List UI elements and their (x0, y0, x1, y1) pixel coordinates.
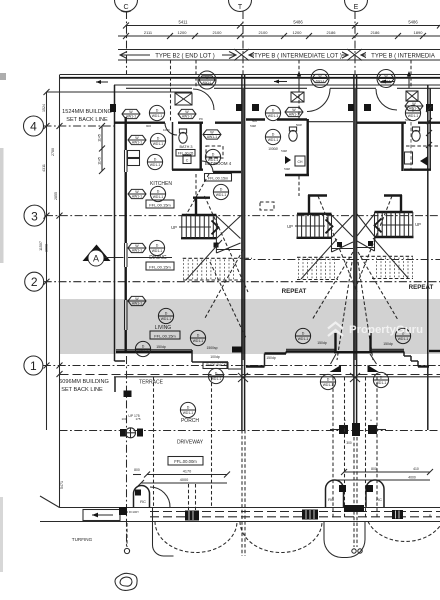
svg-text:150dp: 150dp (266, 356, 276, 360)
svg-text:SHOE RACK: SHOE RACK (206, 363, 227, 367)
bath2 door triangle (285, 156, 291, 164)
front tag house1b (190, 330, 205, 345)
svg-text:TERRACE: TERRACE (139, 380, 164, 386)
porch tag (180, 402, 195, 417)
grid line horizontal 2 (44, 281, 440, 283)
svg-text:C: C (123, 4, 128, 11)
gate arc house2 (240, 522, 322, 553)
svg-text:2186: 2186 (327, 30, 337, 35)
left boundary diagonal (40, 496, 60, 508)
bath2 circle tag (265, 129, 280, 144)
dining tag circle (149, 240, 164, 255)
grid line vertical 1 (126, 11, 128, 75)
svg-text:1200: 1200 (293, 30, 303, 35)
kitchen tag hex (128, 189, 146, 198)
grid bubble top E (345, 0, 368, 12)
svg-text:50Ø: 50Ø (250, 124, 256, 128)
grid bubble 1 (24, 356, 43, 375)
svg-text:1524: 1524 (42, 104, 46, 112)
bath2 wall south (285, 174, 309, 176)
svg-text:FFL.00.15m: FFL.00.15m (208, 176, 228, 180)
svg-text:SET BACK LINE: SET BACK LINE (66, 117, 108, 123)
svg-text:TYPE B ( INTERMEDIATE LOT ): TYPE B ( INTERMEDIATE LOT ) (254, 54, 342, 60)
road centerline (150, 511, 440, 513)
party wall X mark 1 (238, 373, 248, 382)
door arrow house3 (420, 156, 428, 166)
watermark band (60, 299, 440, 354)
svg-text:5411: 5411 (178, 20, 188, 25)
stair2 lower flight (297, 257, 352, 279)
svg-text:TURFING: TURFING (72, 537, 93, 542)
svg-text:DINING: DINING (149, 255, 167, 261)
bath1 wall west (172, 122, 174, 170)
bath2 CH box (295, 156, 305, 166)
svg-text:TYPE B2 ( END LOT ): TYPE B2 ( END LOT ) (155, 54, 215, 60)
driveway ffl (168, 457, 203, 466)
svg-text:175: 175 (135, 417, 140, 421)
washer box house3 (406, 91, 418, 101)
stair3 sight line c (358, 262, 373, 360)
stair2 sight line b (312, 252, 353, 320)
svg-text:5486: 5486 (408, 20, 418, 25)
lot1 side fence (114, 85, 116, 361)
bedroom4 circle tag (205, 149, 220, 164)
kitchen top tag hex (128, 135, 146, 144)
svg-text:4: 4 (30, 120, 37, 134)
terrace front edge (114, 376, 440, 378)
flow arrow house2 (274, 80, 287, 84)
living tag circle (158, 308, 173, 323)
stair3 sight line b (358, 252, 398, 320)
grid bubble top C1 (115, 0, 138, 12)
front wall house1 (115, 350, 242, 369)
rear fence posts (110, 104, 116, 112)
driveway dim house1 (133, 468, 230, 486)
svg-text:UP: UP (171, 225, 177, 230)
svg-text:UP: UP (415, 222, 421, 227)
svg-text:3: 3 (31, 209, 38, 223)
svg-text:2: 2 (31, 275, 38, 289)
svg-text:5471: 5471 (60, 481, 64, 489)
stair3 landing (357, 212, 408, 278)
gate arc house3 (368, 522, 440, 542)
yard tag hex house1a (122, 109, 140, 118)
grid bubble 2 (25, 272, 44, 291)
bath3 wall west (401, 122, 403, 171)
svg-text:CH: CH (298, 160, 303, 164)
dim 1145 chain (98, 123, 106, 174)
toilet house1 (179, 129, 187, 143)
bath1 wall east (199, 122, 201, 170)
svg-text:4000: 4000 (408, 476, 416, 480)
north arrow house2 (297, 71, 301, 88)
toilet house2 (289, 127, 297, 141)
flow arrow house3 (381, 80, 394, 84)
repeat note line (243, 259, 440, 261)
stair1 lower flight (183, 258, 252, 280)
main wall row house1 (114, 121, 241, 123)
svg-text:FFL.00.15m: FFL.00.15m (149, 202, 171, 207)
house2 stack dashed (298, 60, 300, 119)
left margin artifacts (0, 148, 4, 263)
grid line horizontal 1 (43, 365, 440, 367)
drain leader dashes house1 (188, 484, 190, 510)
pantry dashed box (206, 146, 223, 158)
grid line vertical 3 (354, 11, 356, 75)
yard tag circle house2 (265, 105, 280, 120)
stair2 upper flight (287, 214, 332, 238)
dining right tag circle (213, 184, 228, 199)
svg-text:5486: 5486 (293, 20, 303, 25)
main wall row house3 (357, 121, 440, 123)
right fence hatch (426, 106, 432, 148)
grid bubble 3 (24, 205, 45, 226)
stair3 sight line a (354, 196, 392, 292)
party wall 2-3 (354, 75, 357, 430)
washer box house1 (175, 93, 192, 105)
svg-text:PropertyGuru: PropertyGuru (349, 324, 423, 336)
svg-text:50Ø: 50Ø (296, 123, 302, 127)
svg-text:4311: 4311 (42, 164, 46, 172)
stair1 upper flight (171, 215, 218, 238)
rear door arc house2 (307, 89, 330, 112)
main wall row house2 (246, 120, 353, 122)
front tag house1 (135, 341, 150, 356)
svg-text:50Ø: 50Ø (405, 118, 411, 122)
svg-text:2855: 2855 (54, 192, 58, 200)
svg-text:300: 300 (346, 441, 352, 445)
house3 dashed line (406, 145, 440, 147)
svg-text:4000: 4000 (180, 478, 188, 482)
gate arc house1 (155, 522, 237, 553)
hatch box bottom (344, 505, 364, 512)
grid bubble top T (229, 0, 252, 12)
road arrow box (83, 510, 120, 521)
stair3 top wall L (384, 195, 402, 211)
grid line vertical 1 lower (126, 356, 128, 548)
RC post house1 (134, 486, 171, 508)
gate triangle right (368, 365, 380, 372)
svg-text:4170: 4170 (183, 470, 191, 474)
stair2 landing (301, 214, 353, 279)
bedroom4 door path dashes (186, 174, 209, 215)
RC post house3 (366, 480, 384, 507)
yard tag hex house1b (178, 109, 196, 118)
bath3 wall south (404, 168, 431, 170)
svg-text:P9: P9 (199, 117, 203, 121)
party wall front junction block (232, 347, 242, 353)
RC post house2 (326, 480, 347, 507)
svg-text:100: 100 (121, 417, 126, 421)
road drain grate 2 (302, 510, 318, 520)
sink house3 (405, 152, 413, 164)
dimension line top A (123, 20, 440, 29)
setback line top (47, 91, 127, 93)
svg-text:2186: 2186 (371, 30, 381, 35)
rear fence line (114, 84, 440, 86)
yard tag hex house2 (285, 107, 303, 116)
road top edge (60, 507, 440, 509)
grid line vertical 2 (242, 11, 244, 75)
svg-text:50Ø: 50Ø (281, 149, 287, 153)
svg-text:2100: 2100 (213, 30, 223, 35)
kitchen door arc (165, 123, 177, 135)
grid1 below road dashes (126, 523, 128, 547)
driveway dim house23 (337, 441, 433, 480)
svg-text:2780: 2780 (51, 148, 55, 156)
bath2 wall east (307, 119, 309, 176)
gate swing circles (352, 549, 356, 553)
svg-text:T: T (238, 4, 243, 11)
stair1 landing (186, 215, 241, 280)
svg-text:1145: 1145 (98, 134, 102, 142)
svg-text:UP: UP (287, 224, 293, 229)
svg-text:2111: 2111 (144, 30, 153, 35)
party wall X mark 2 (350, 373, 360, 382)
rear boundary double line (60, 74, 440, 76)
kitchen top tag circle (150, 133, 165, 148)
house1 left wall windows (124, 150, 129, 330)
road corner arc (153, 507, 174, 556)
shoe rack (203, 363, 227, 369)
svg-text:KITCHEN: KITCHEN (150, 181, 172, 187)
svg-text:11507: 11507 (39, 241, 43, 251)
road drain grate 3 (392, 510, 403, 519)
stair2 sight line a (318, 196, 357, 292)
svg-text:FFL.00.15m: FFL.00.15m (149, 264, 171, 269)
kitchen sink (128, 151, 140, 166)
svg-text:410: 410 (413, 467, 419, 471)
yard tag hex house3 (405, 101, 423, 110)
kitchen mid tag circle (147, 154, 162, 169)
svg-text:1890: 1890 (414, 30, 424, 35)
gate diagonals (331, 354, 337, 364)
svg-text:C: C (186, 159, 189, 163)
front tag house3a (395, 328, 410, 343)
grid line horizontal 4 (44, 125, 115, 127)
svg-text:1200: 1200 (178, 30, 188, 35)
svg-text:BATH 3: BATH 3 (179, 145, 192, 149)
svg-text:A: A (93, 254, 99, 264)
gate swing rounded house23 (324, 522, 365, 558)
porch column lines (153, 377, 155, 506)
svg-text:1000Ø: 1000Ø (268, 147, 278, 151)
party wall 1-2 (242, 75, 245, 430)
svg-text:RC: RC (140, 499, 146, 504)
svg-text:RC: RC (376, 497, 382, 502)
tag WD1-5 house1 (198, 71, 216, 89)
front tag house2a (295, 328, 310, 343)
dining tag hex (128, 243, 146, 252)
terrace fence lower (114, 377, 116, 392)
tag WD1-5 house2 (311, 70, 329, 88)
front wall house3 (355, 333, 440, 367)
kitchen tag circle (150, 186, 165, 201)
svg-text:1145: 1145 (98, 157, 102, 165)
svg-text:»: » (429, 513, 432, 519)
road drain grate 1 (185, 511, 199, 521)
svg-text:TYPE B ( INTERMEDIA: TYPE B ( INTERMEDIA (371, 54, 435, 60)
driveway line (60, 430, 440, 432)
stair1 sight line a (205, 196, 249, 292)
svg-text:100dp: 100dp (210, 355, 220, 359)
stair1 sight line c (210, 262, 246, 338)
toilet house3 (412, 127, 420, 141)
yard dashed verticals (170, 60, 172, 122)
svg-text:FFL.00.00m: FFL.00.00m (174, 459, 197, 464)
svg-text:2100: 2100 (259, 30, 269, 35)
svg-text:1: 1 (30, 359, 37, 373)
grid line horizontal 3 (45, 215, 440, 217)
watermark logo (328, 323, 343, 337)
kitchen rear wall line (126, 91, 192, 93)
svg-text:800: 800 (134, 468, 140, 472)
svg-text:SET BACK LINE: SET BACK LINE (61, 387, 103, 393)
bedroom4 door arc (202, 161, 213, 172)
grid bubble 4 (24, 116, 44, 136)
gully posts house1 (120, 417, 143, 438)
left dim ticks (44, 89, 63, 377)
flow arrow house1 (96, 80, 108, 84)
svg-text:RC: RC (328, 497, 334, 502)
north arrow house3 (407, 71, 411, 88)
type band (118, 49, 440, 61)
bedroom4 tag (203, 130, 221, 139)
terrace gate post (124, 391, 132, 398)
dimension line top B (118, 30, 440, 39)
house3 stack dashed (410, 60, 412, 88)
svg-text:800: 800 (371, 467, 377, 471)
bedroom4 wall south (213, 171, 241, 173)
svg-text:6096MM BUILDING: 6096MM BUILDING (59, 379, 109, 385)
stair1 top wall L (193, 197, 210, 214)
living tag hex (128, 296, 146, 305)
svg-text:REPEAT: REPEAT (409, 284, 434, 291)
stair1 sight line b (205, 250, 243, 318)
stair3 upper flight (375, 212, 422, 237)
stair2 top wall L (308, 195, 327, 213)
svg-text:DRIVEWAY: DRIVEWAY (177, 440, 204, 446)
svg-text:×: × (370, 418, 373, 423)
svg-text:1524MM BUILDING: 1524MM BUILDING (62, 109, 112, 115)
terrace tag house1 (208, 368, 223, 383)
terrace tag house3 (373, 372, 388, 387)
rear door arc house1 (193, 89, 214, 110)
road bottom edge (40, 521, 440, 523)
front wall house2 (246, 333, 355, 367)
washer box house2 (291, 92, 304, 102)
party23 drain squares (330, 418, 386, 437)
svg-text:900: 900 (146, 124, 151, 128)
svg-text:3008: 3008 (45, 244, 49, 252)
yard tag circle house3 (405, 105, 420, 120)
terrace line (60, 374, 440, 376)
svg-text:PORCH: PORCH (181, 418, 199, 424)
bath1 wall south (172, 168, 203, 170)
terrace tag house2 (320, 374, 335, 389)
yard tag circle house1 (149, 105, 164, 120)
cloud blob (115, 573, 137, 590)
left boundary line (59, 75, 61, 508)
section marker A (83, 245, 173, 267)
lot3 right fence (428, 85, 430, 430)
stair3 lower flight (360, 256, 413, 278)
left dim line inner (46, 92, 48, 430)
tag WD1-5 house3 (377, 70, 395, 88)
svg-text:REPEAT: REPEAT (282, 288, 307, 295)
house1 left wall (124, 117, 126, 352)
rear door arc house3 (376, 89, 397, 110)
house2 dashed box (260, 202, 274, 210)
bath cistern box (183, 155, 191, 164)
stair2 sight line c (337, 262, 352, 360)
svg-text:E: E (354, 4, 359, 11)
gate triangle left (330, 365, 342, 372)
svg-text:50Ø: 50Ø (284, 167, 290, 171)
party wall lower dashes (241, 430, 243, 556)
svg-text:FFL.00.05: FFL.00.05 (178, 152, 194, 156)
driveway23 dashed edges (332, 377, 334, 518)
